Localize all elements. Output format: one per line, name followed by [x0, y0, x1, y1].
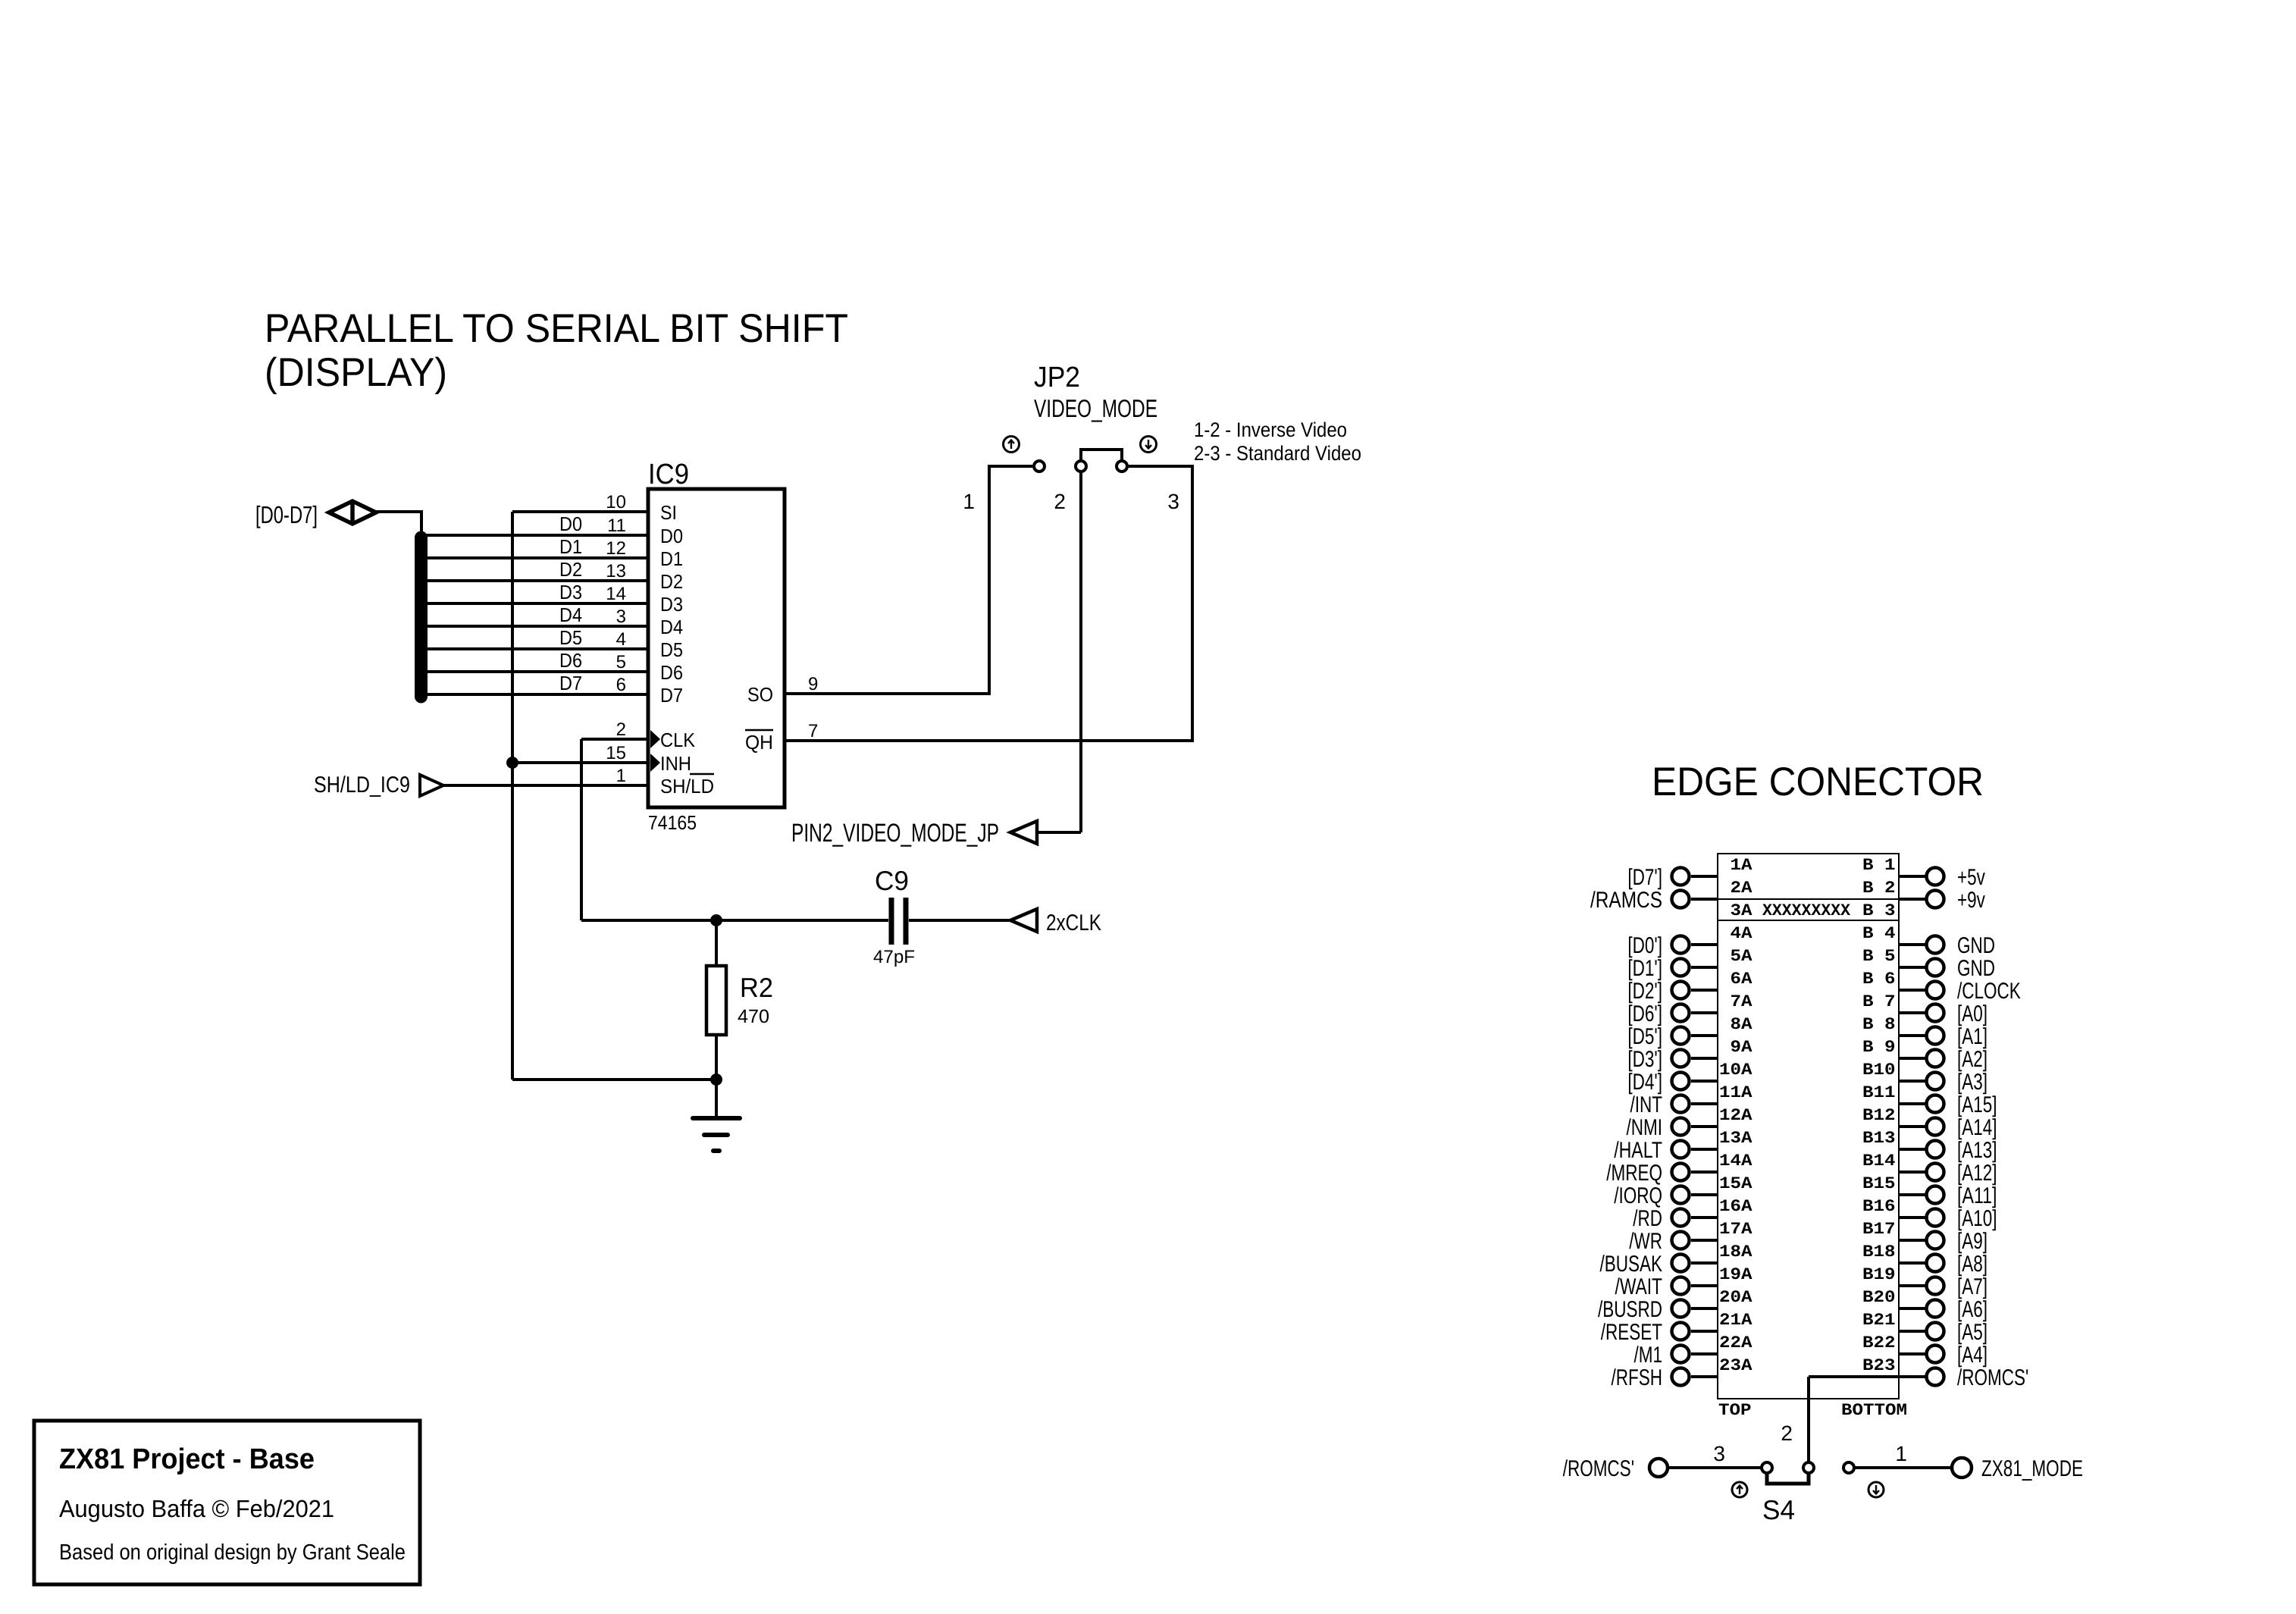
svg-text:EDGE CONECTOR: EDGE CONECTOR [1652, 760, 1984, 804]
svg-text:+9v: +9v [1957, 888, 1985, 913]
svg-text:D2: D2 [660, 570, 683, 593]
svg-text:10: 10 [606, 492, 626, 512]
svg-text:17A: 17A [1719, 1220, 1753, 1239]
svg-text:470: 470 [738, 1006, 769, 1027]
svg-text:B: B [1862, 1061, 1874, 1080]
svg-text:4: 4 [1884, 924, 1896, 943]
svg-text:S4: S4 [1762, 1494, 1795, 1525]
svg-text:C9: C9 [875, 865, 909, 896]
svg-text:B: B [1862, 1311, 1874, 1330]
svg-text:/ROMCS': /ROMCS' [1563, 1456, 1634, 1481]
svg-text:B: B [1862, 1220, 1874, 1239]
svg-text:4A: 4A [1731, 924, 1753, 943]
svg-text:BOTTOM: BOTTOM [1841, 1401, 1907, 1420]
svg-text:[A14]: [A14] [1957, 1115, 1997, 1140]
svg-text:D1: D1 [559, 535, 582, 558]
svg-text:2: 2 [1884, 879, 1896, 898]
svg-text:B: B [1862, 1152, 1874, 1171]
svg-text:[A1]: [A1] [1957, 1024, 1987, 1049]
svg-text:9: 9 [808, 674, 818, 694]
svg-text:16A: 16A [1719, 1197, 1753, 1216]
svg-text:B: B [1862, 1356, 1874, 1375]
svg-text:17: 17 [1874, 1220, 1896, 1239]
svg-text:[D4']: [D4'] [1627, 1070, 1662, 1095]
svg-text:22: 22 [1874, 1334, 1896, 1352]
svg-text:11A: 11A [1719, 1083, 1753, 1102]
svg-text:9: 9 [1884, 1038, 1896, 1057]
svg-text:18: 18 [1874, 1243, 1896, 1261]
svg-text:[A2]: [A2] [1957, 1047, 1987, 1072]
svg-text:B: B [1862, 1083, 1874, 1102]
svg-text:2-3 - Standard Video: 2-3 - Standard Video [1194, 442, 1361, 465]
svg-text:19: 19 [1874, 1265, 1896, 1284]
svg-text:Based on original design by Gr: Based on original design by Grant Seale [59, 1540, 406, 1565]
svg-text:23: 23 [1874, 1356, 1896, 1375]
svg-text:14A: 14A [1719, 1152, 1753, 1171]
svg-text:D7: D7 [660, 684, 683, 707]
svg-text:2xCLK: 2xCLK [1046, 910, 1101, 935]
svg-text:D6: D6 [660, 661, 683, 684]
svg-text:SH/LD_IC9: SH/LD_IC9 [314, 773, 410, 798]
svg-text:/MREQ: /MREQ [1606, 1161, 1662, 1186]
svg-text:QH: QH [745, 731, 773, 754]
svg-text:D3: D3 [559, 581, 582, 603]
svg-text:/RESET: /RESET [1601, 1320, 1662, 1345]
svg-text:8A: 8A [1731, 1015, 1753, 1034]
svg-text:B: B [1862, 1265, 1874, 1284]
svg-text:/BUSAK: /BUSAK [1600, 1252, 1663, 1277]
svg-text:PARALLEL TO SERIAL BIT SHIFT: PARALLEL TO SERIAL BIT SHIFT [265, 306, 848, 351]
svg-text:D6: D6 [559, 649, 582, 672]
svg-text:B: B [1862, 1334, 1874, 1352]
svg-text:23A: 23A [1719, 1356, 1753, 1375]
svg-text:/WR: /WR [1629, 1229, 1662, 1254]
svg-text:2: 2 [616, 719, 626, 740]
svg-text:8: 8 [1884, 1015, 1896, 1034]
svg-text:B: B [1862, 1129, 1874, 1148]
svg-text:/BUSRD: /BUSRD [1598, 1297, 1662, 1322]
svg-text:[D5']: [D5'] [1627, 1024, 1662, 1049]
svg-text:D4: D4 [559, 603, 582, 626]
svg-text:Augusto Baffa © Feb/2021: Augusto Baffa © Feb/2021 [59, 1495, 334, 1522]
svg-text:[A12]: [A12] [1957, 1161, 1997, 1186]
svg-text:SI: SI [660, 501, 677, 524]
svg-text:13: 13 [606, 561, 626, 581]
svg-text:20: 20 [1874, 1288, 1896, 1307]
svg-text:5A: 5A [1731, 947, 1753, 966]
svg-text:15A: 15A [1719, 1174, 1753, 1193]
svg-text:1: 1 [1884, 856, 1896, 875]
svg-text:7A: 7A [1731, 992, 1753, 1011]
svg-text:[D3']: [D3'] [1627, 1047, 1662, 1072]
svg-text:3: 3 [1167, 490, 1179, 513]
svg-text:B: B [1862, 856, 1874, 875]
svg-text:/CLOCK: /CLOCK [1957, 979, 2021, 1004]
svg-text:XXXXXXXXX: XXXXXXXXX [1762, 901, 1851, 920]
svg-text:D1: D1 [660, 547, 683, 570]
svg-text:/IORQ: /IORQ [1614, 1183, 1662, 1208]
svg-text:2A: 2A [1731, 879, 1753, 898]
svg-text:[D1']: [D1'] [1627, 956, 1662, 981]
svg-text:20A: 20A [1719, 1288, 1753, 1307]
svg-text:+5v: +5v [1957, 865, 1985, 890]
svg-text:B: B [1862, 992, 1874, 1011]
svg-text:11: 11 [1874, 1083, 1896, 1102]
svg-text:47pF: 47pF [873, 947, 915, 967]
svg-text:B: B [1862, 1243, 1874, 1261]
svg-text:12: 12 [606, 538, 626, 559]
svg-text:[D0-D7]: [D0-D7] [255, 501, 318, 528]
svg-text:B: B [1862, 924, 1874, 943]
svg-text:B: B [1862, 879, 1874, 898]
svg-text:/INT: /INT [1630, 1092, 1663, 1117]
svg-text:3: 3 [1713, 1442, 1725, 1465]
svg-text:D4: D4 [660, 616, 683, 638]
svg-text:4: 4 [616, 629, 626, 650]
svg-text:16: 16 [1874, 1197, 1896, 1216]
svg-text:[A15]: [A15] [1957, 1092, 1997, 1117]
svg-text:/RD: /RD [1633, 1206, 1662, 1231]
svg-text:GND: GND [1957, 933, 1995, 958]
svg-text:15: 15 [1874, 1174, 1896, 1193]
svg-text:18A: 18A [1719, 1243, 1753, 1261]
svg-text:2: 2 [1781, 1421, 1793, 1445]
svg-text:13A: 13A [1719, 1129, 1753, 1148]
svg-text:10: 10 [1874, 1061, 1896, 1080]
svg-text:[D6']: [D6'] [1627, 1001, 1662, 1026]
svg-text:D0: D0 [559, 512, 582, 535]
svg-text:3: 3 [616, 606, 626, 627]
svg-text:SO: SO [747, 683, 773, 706]
svg-text:3: 3 [1884, 901, 1896, 920]
svg-text:PIN2_VIDEO_MODE_JP: PIN2_VIDEO_MODE_JP [791, 819, 999, 848]
svg-text:3A: 3A [1731, 901, 1753, 920]
svg-text:GND: GND [1957, 956, 1995, 981]
svg-text:[A13]: [A13] [1957, 1138, 1997, 1163]
svg-text:[A3]: [A3] [1957, 1070, 1987, 1095]
svg-text:[D0']: [D0'] [1627, 933, 1662, 958]
svg-text:[A8]: [A8] [1957, 1252, 1987, 1277]
svg-text:/M1: /M1 [1634, 1343, 1663, 1368]
svg-text:9A: 9A [1731, 1038, 1753, 1057]
svg-text:/RFSH: /RFSH [1612, 1365, 1663, 1390]
svg-text:7: 7 [808, 721, 818, 741]
svg-text:SH/LD: SH/LD [660, 775, 714, 798]
svg-text:[A4]: [A4] [1957, 1343, 1987, 1368]
svg-text:21: 21 [1874, 1311, 1896, 1330]
svg-text:D5: D5 [660, 638, 683, 661]
svg-text:12: 12 [1874, 1106, 1896, 1125]
svg-text:IC9: IC9 [648, 459, 689, 490]
svg-text:/HALT: /HALT [1614, 1138, 1662, 1163]
svg-text:2: 2 [1054, 490, 1066, 513]
svg-text:[A6]: [A6] [1957, 1297, 1987, 1322]
svg-text:[A11]: [A11] [1957, 1183, 1997, 1208]
svg-text:TOP: TOP [1718, 1401, 1752, 1420]
svg-text:[D7']: [D7'] [1627, 865, 1662, 890]
svg-text:/RAMCS: /RAMCS [1590, 888, 1662, 913]
svg-text:1: 1 [616, 766, 626, 786]
svg-text:D2: D2 [559, 558, 582, 581]
svg-text:D5: D5 [559, 626, 582, 649]
svg-text:10A: 10A [1719, 1061, 1753, 1080]
svg-text:D7: D7 [559, 672, 582, 694]
svg-text:B: B [1862, 1197, 1874, 1216]
svg-text:12A: 12A [1719, 1106, 1753, 1125]
svg-text:B: B [1862, 1106, 1874, 1125]
svg-text:74165: 74165 [648, 811, 697, 834]
svg-text:/ROMCS': /ROMCS' [1957, 1365, 2028, 1390]
svg-text:VIDEO_MODE: VIDEO_MODE [1034, 394, 1157, 422]
svg-text:ZX81 Project - Base: ZX81 Project - Base [59, 1443, 315, 1475]
svg-text:(DISPLAY): (DISPLAY) [265, 350, 447, 395]
svg-text:1A: 1A [1731, 856, 1753, 875]
svg-text:B: B [1862, 1015, 1874, 1034]
svg-text:B: B [1862, 970, 1874, 989]
svg-text:6: 6 [616, 675, 626, 695]
svg-text:[A10]: [A10] [1957, 1206, 1997, 1231]
svg-text:CLK: CLK [660, 729, 696, 751]
svg-text:D0: D0 [660, 525, 683, 547]
svg-text:[A0]: [A0] [1957, 1001, 1987, 1026]
svg-text:6A: 6A [1731, 970, 1753, 989]
svg-text:JP2: JP2 [1034, 362, 1080, 393]
svg-text:ZX81_MODE: ZX81_MODE [1981, 1456, 2083, 1481]
svg-text:5: 5 [1884, 947, 1896, 966]
svg-text:[D2']: [D2'] [1627, 979, 1662, 1004]
svg-text:15: 15 [606, 743, 626, 763]
svg-text:B: B [1862, 901, 1874, 920]
svg-text:[A7]: [A7] [1957, 1274, 1987, 1299]
svg-text:B: B [1862, 1288, 1874, 1307]
svg-text:5: 5 [616, 652, 626, 672]
svg-text:21A: 21A [1719, 1311, 1753, 1330]
svg-text:7: 7 [1884, 992, 1896, 1011]
svg-text:22A: 22A [1719, 1334, 1753, 1352]
svg-text:13: 13 [1874, 1129, 1896, 1148]
svg-text:B: B [1862, 947, 1874, 966]
svg-text:R2: R2 [740, 972, 773, 1003]
svg-text:14: 14 [1874, 1152, 1896, 1171]
svg-text:1-2 - Inverse Video: 1-2 - Inverse Video [1194, 418, 1347, 441]
svg-text:INH: INH [660, 752, 691, 775]
svg-text:1: 1 [963, 490, 975, 513]
svg-text:B: B [1862, 1174, 1874, 1193]
svg-text:[A9]: [A9] [1957, 1229, 1987, 1254]
svg-text:[A5]: [A5] [1957, 1320, 1987, 1345]
svg-text:11: 11 [607, 516, 626, 536]
svg-text:6: 6 [1884, 970, 1896, 989]
svg-text:/NMI: /NMI [1627, 1115, 1663, 1140]
svg-text:14: 14 [606, 584, 626, 604]
svg-text:1: 1 [1895, 1442, 1907, 1465]
svg-text:D3: D3 [660, 593, 683, 616]
svg-text:19A: 19A [1719, 1265, 1753, 1284]
svg-text:/WAIT: /WAIT [1615, 1274, 1663, 1299]
svg-text:B: B [1862, 1038, 1874, 1057]
